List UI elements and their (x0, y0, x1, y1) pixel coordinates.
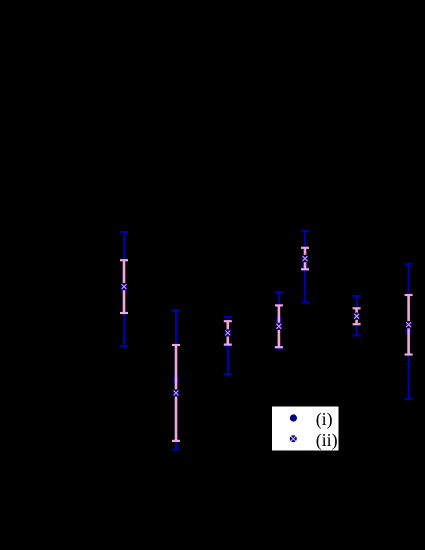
errorbar i P6 (352, 296, 360, 335)
dot i P3 (224, 342, 231, 349)
errorbar i P1 (120, 232, 128, 346)
errorbar ii P1 (120, 260, 128, 313)
svg-text:(i): (i) (316, 409, 333, 430)
circle-x ii P7 (405, 321, 412, 328)
errorbar i P7 (404, 264, 412, 399)
errorbar i P3 (224, 317, 232, 374)
dot i P5 (301, 263, 308, 270)
series (ii) circle-x markers (120, 255, 412, 397)
circle-x ii P4 (275, 323, 282, 330)
dot i P1 (120, 285, 127, 292)
dot i P7 (405, 328, 412, 335)
svg-text:(ii): (ii) (316, 430, 338, 451)
legend box (272, 407, 339, 451)
errorbar ii P4 (275, 305, 283, 347)
circle-x ii P6 (353, 313, 360, 320)
errorbar i P4 (275, 292, 283, 348)
errorbar i P5 (301, 231, 309, 303)
dot i P4 (275, 316, 282, 323)
series (ii) pink error bars (120, 248, 413, 441)
circle-x ii P2 (172, 389, 179, 396)
errorbar ii P5 (301, 248, 309, 269)
errorbar ii P3 (224, 321, 232, 344)
dot i P2 (172, 376, 179, 383)
circle-x ii P3 (224, 329, 231, 336)
series (i) dot markers (120, 263, 412, 383)
circle-x ii P1 (120, 283, 127, 290)
dot i P6 (353, 312, 360, 319)
legend circle-x marker (ii) (290, 435, 297, 442)
circle-x ii P5 (301, 255, 308, 262)
errorbar ii P2 (172, 345, 180, 441)
errorbar i P2 (172, 310, 180, 450)
legend dot marker (i) (290, 414, 297, 421)
errorbar ii P7 (405, 295, 413, 355)
errorbar ii P6 (353, 308, 361, 324)
series (i) blue error bars (120, 231, 413, 450)
